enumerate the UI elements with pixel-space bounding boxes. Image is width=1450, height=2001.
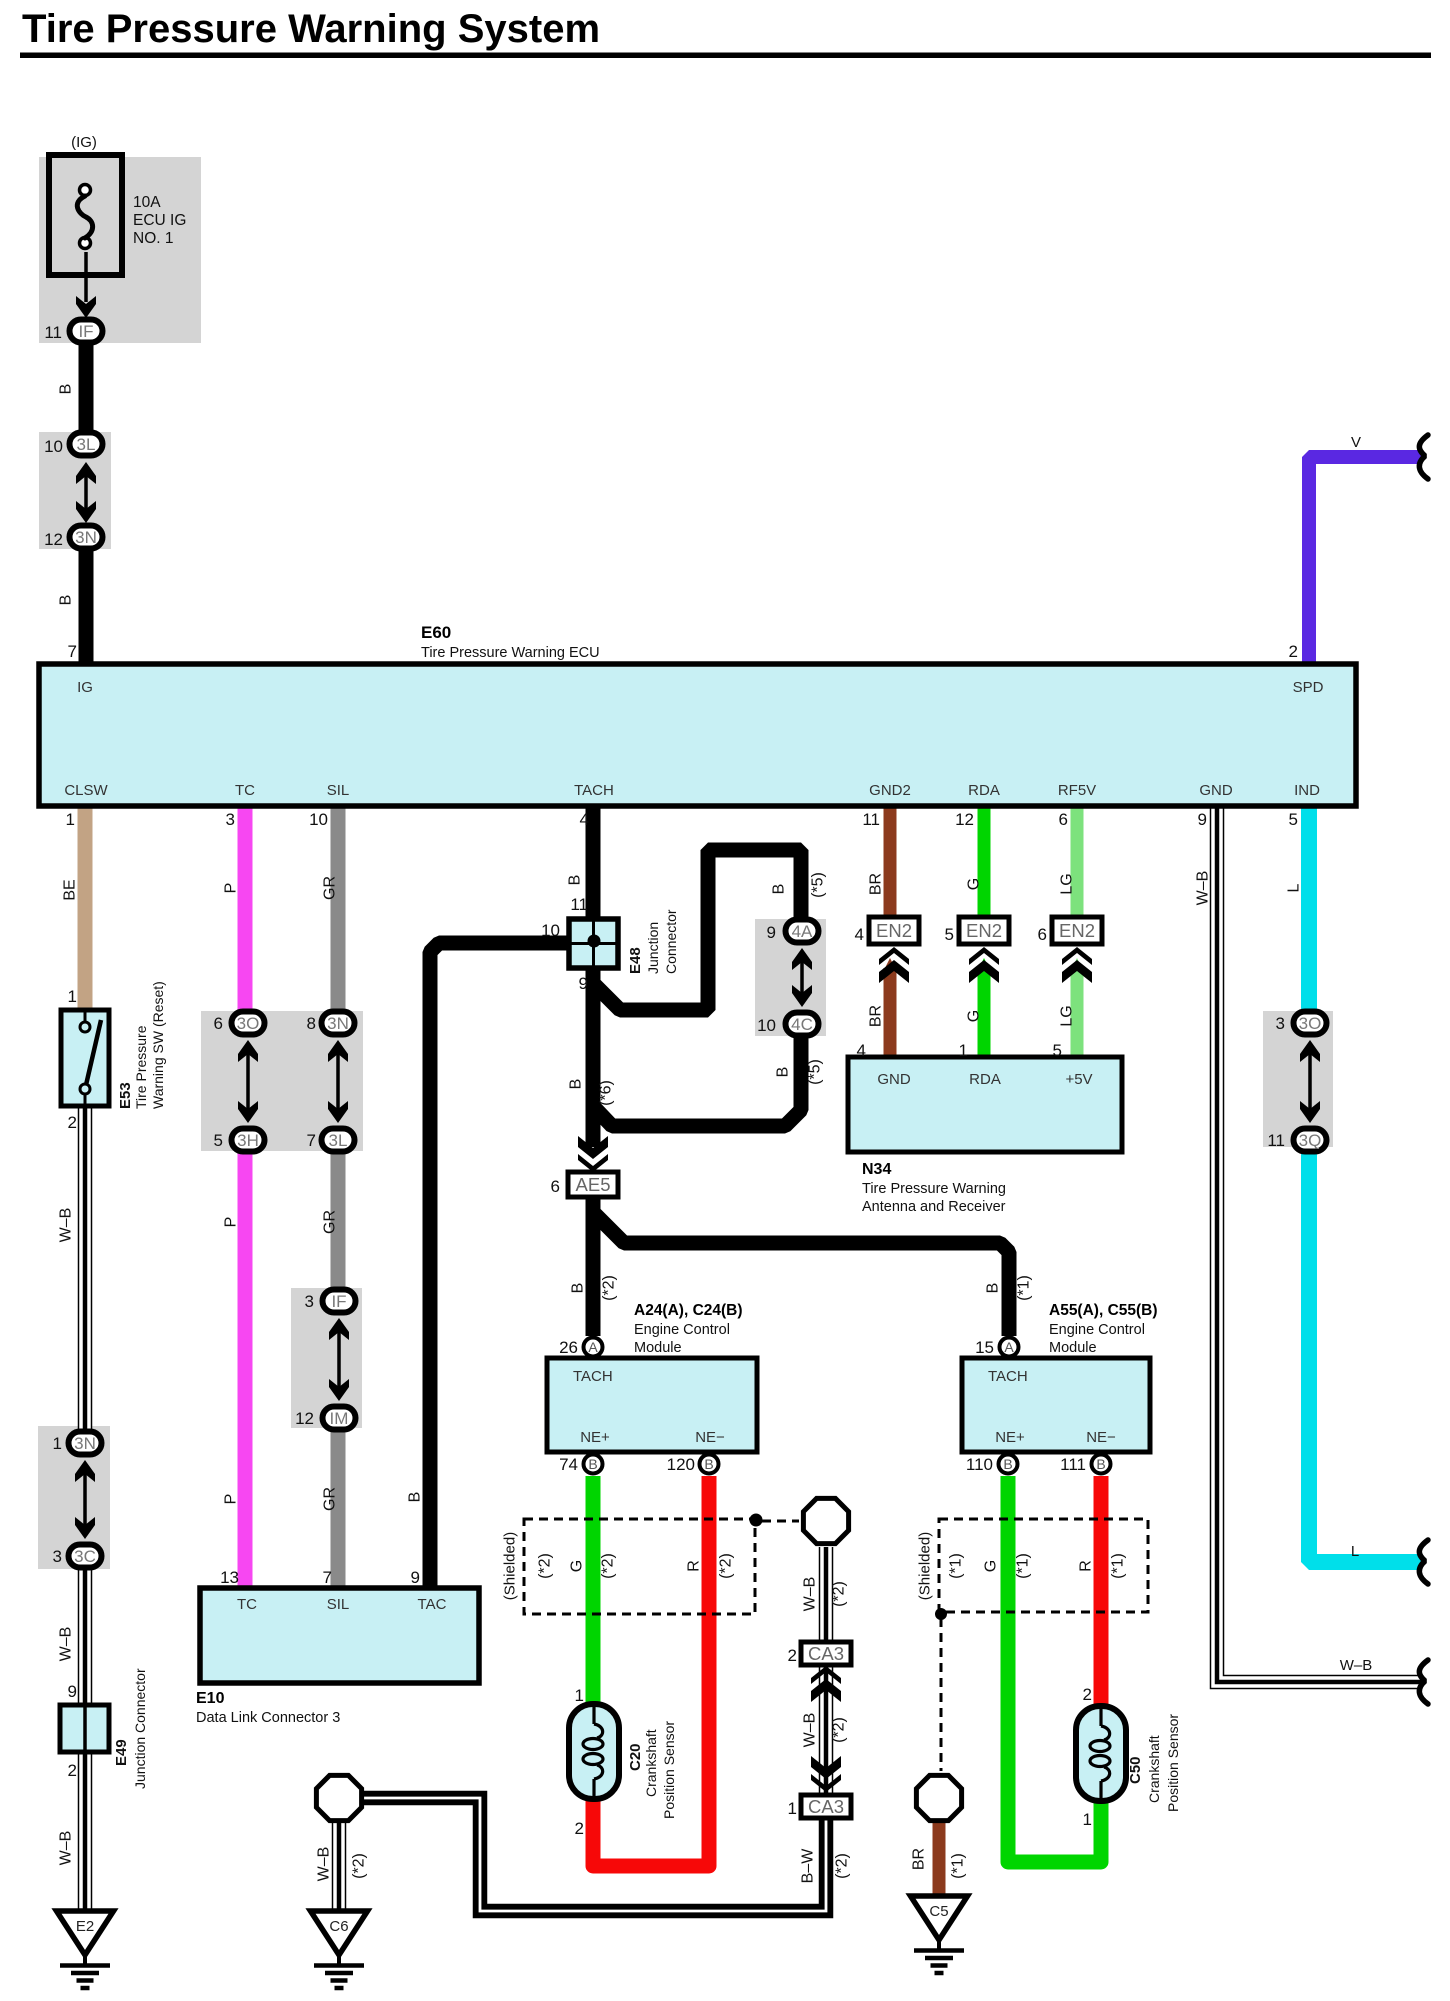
svg-text:(*5): (*5) [807, 1059, 824, 1085]
svg-text:RDA: RDA [969, 1071, 1001, 1088]
svg-text:+5V: +5V [1065, 1071, 1092, 1088]
svg-text:9: 9 [767, 923, 776, 942]
svg-text:P: P [223, 1217, 240, 1228]
svg-text:BR: BR [868, 873, 885, 895]
svg-text:(Shielded): (Shielded) [502, 1532, 519, 1600]
svg-text:Module: Module [634, 1340, 682, 1356]
svg-text:E10: E10 [196, 1690, 225, 1707]
svg-text:G: G [966, 878, 983, 890]
svg-text:Engine Control: Engine Control [1049, 1322, 1145, 1338]
svg-text:3O: 3O [1299, 1014, 1322, 1033]
svg-text:4: 4 [857, 1041, 866, 1060]
svg-text:1: 1 [68, 987, 77, 1006]
svg-text:Connector: Connector [663, 909, 679, 974]
svg-text:EN2: EN2 [1059, 920, 1095, 941]
svg-text:(*2): (*2) [600, 1553, 617, 1579]
svg-text:(*1): (*1) [950, 1853, 967, 1879]
svg-text:(*2): (*2) [834, 1853, 851, 1879]
svg-text:LG: LG [1059, 873, 1076, 894]
svg-text:5: 5 [945, 925, 954, 944]
svg-text:1: 1 [1083, 1810, 1092, 1829]
svg-text:3Q: 3Q [1299, 1131, 1322, 1150]
svg-text:P: P [223, 1494, 240, 1505]
svg-text:2: 2 [68, 1113, 77, 1132]
svg-text:Tire Pressure Warning: Tire Pressure Warning [862, 1181, 1006, 1197]
svg-text:(*5): (*5) [810, 872, 827, 898]
svg-text:(IG): (IG) [71, 134, 97, 151]
svg-text:3N: 3N [75, 528, 97, 547]
svg-text:9: 9 [68, 1682, 77, 1701]
svg-text:10A: 10A [133, 194, 161, 211]
svg-text:W–B: W–B [1195, 871, 1212, 906]
svg-text:3: 3 [226, 810, 235, 829]
svg-text:9: 9 [411, 1568, 420, 1587]
svg-text:GR: GR [322, 1487, 339, 1511]
svg-text:LG: LG [1059, 1005, 1076, 1026]
svg-text:3L: 3L [77, 435, 96, 454]
svg-text:E48: E48 [627, 947, 644, 974]
svg-text:7: 7 [307, 1131, 316, 1150]
svg-text:BE: BE [62, 879, 79, 900]
svg-text:V: V [1351, 434, 1361, 451]
svg-text:Position Sensor: Position Sensor [661, 1721, 677, 1819]
svg-text:11: 11 [570, 895, 588, 914]
svg-text:Antenna and Receiver: Antenna and Receiver [862, 1199, 1006, 1215]
svg-text:IF: IF [78, 322, 93, 341]
svg-text:2: 2 [1083, 1685, 1092, 1704]
svg-text:A: A [1004, 1339, 1014, 1355]
svg-text:GND: GND [1199, 782, 1233, 799]
svg-text:(*1): (*1) [948, 1553, 965, 1579]
svg-text:IF: IF [331, 1292, 346, 1311]
svg-text:R: R [686, 1560, 703, 1572]
svg-text:NO. 1: NO. 1 [133, 230, 173, 247]
svg-text:2: 2 [575, 1819, 584, 1838]
svg-text:BR: BR [868, 1005, 885, 1027]
svg-text:E53: E53 [117, 1082, 134, 1109]
svg-text:Data Link Connector 3: Data Link Connector 3 [196, 1710, 340, 1726]
svg-text:(*2): (*2) [718, 1553, 735, 1579]
svg-text:7: 7 [68, 642, 77, 661]
svg-text:TACH: TACH [573, 1368, 613, 1385]
svg-text:TACH: TACH [574, 782, 614, 799]
svg-text:TACH: TACH [988, 1368, 1028, 1385]
svg-text:6: 6 [214, 1014, 223, 1033]
svg-text:(*2): (*2) [351, 1853, 368, 1879]
svg-text:5: 5 [214, 1131, 223, 1150]
svg-text:4C: 4C [791, 1015, 813, 1034]
svg-text:6: 6 [1038, 925, 1047, 944]
svg-text:W–B: W–B [58, 1831, 75, 1866]
svg-text:10: 10 [541, 921, 560, 940]
svg-text:2: 2 [788, 1646, 797, 1665]
svg-text:4: 4 [580, 810, 589, 829]
svg-text:1: 1 [53, 1434, 62, 1453]
svg-text:GND: GND [877, 1071, 911, 1088]
svg-text:1: 1 [66, 810, 75, 829]
svg-text:3: 3 [53, 1547, 62, 1566]
svg-text:(*2): (*2) [537, 1553, 554, 1579]
svg-text:E49: E49 [113, 1739, 130, 1766]
svg-text:A24(A), C24(B): A24(A), C24(B) [634, 1302, 743, 1319]
svg-text:5: 5 [1289, 810, 1298, 829]
svg-text:2: 2 [1289, 642, 1298, 661]
svg-text:Crankshaft: Crankshaft [643, 1729, 659, 1797]
svg-text:RDA: RDA [968, 782, 1000, 799]
svg-text:E60: E60 [421, 623, 451, 642]
svg-text:(*2): (*2) [831, 1581, 848, 1607]
svg-text:B: B [58, 384, 75, 395]
svg-text:(*6): (*6) [598, 1080, 615, 1106]
svg-text:CLSW: CLSW [64, 782, 108, 799]
svg-text:C20: C20 [627, 1743, 644, 1771]
svg-text:12: 12 [295, 1409, 314, 1428]
svg-text:6: 6 [1059, 810, 1068, 829]
svg-text:C6: C6 [329, 1918, 348, 1935]
svg-text:B: B [775, 1067, 792, 1078]
svg-text:W–B: W–B [316, 1847, 333, 1882]
svg-text:(*2): (*2) [831, 1717, 848, 1743]
svg-text:3O: 3O [237, 1014, 260, 1033]
svg-text:26: 26 [559, 1338, 578, 1357]
svg-text:3L: 3L [329, 1131, 348, 1150]
svg-text:EN2: EN2 [876, 920, 912, 941]
svg-text:3N: 3N [74, 1434, 96, 1453]
svg-text:(*1): (*1) [1110, 1553, 1127, 1579]
svg-text:W–B: W–B [58, 1208, 75, 1243]
svg-text:NE+: NE+ [995, 1429, 1025, 1446]
svg-text:TC: TC [237, 1596, 257, 1613]
svg-text:B: B [58, 595, 75, 606]
svg-text:(*1): (*1) [1016, 1275, 1033, 1301]
svg-text:Position Sensor: Position Sensor [1165, 1714, 1181, 1812]
svg-text:Tire Pressure: Tire Pressure [133, 1025, 149, 1109]
svg-text:CA3: CA3 [808, 1643, 844, 1664]
svg-text:12: 12 [955, 810, 974, 829]
svg-text:8: 8 [307, 1014, 316, 1033]
svg-text:4A: 4A [792, 922, 813, 941]
svg-text:110: 110 [966, 1455, 993, 1474]
svg-text:Tire Pressure Warning System: Tire Pressure Warning System [22, 7, 600, 51]
svg-text:SIL: SIL [327, 1596, 350, 1613]
svg-text:Warning SW (Reset): Warning SW (Reset) [150, 981, 166, 1109]
svg-text:B: B [568, 1079, 585, 1090]
svg-text:NE+: NE+ [580, 1429, 610, 1446]
svg-text:G: G [569, 1560, 586, 1572]
svg-text:B: B [570, 1283, 587, 1294]
svg-text:SPD: SPD [1293, 679, 1324, 696]
svg-text:B: B [771, 884, 788, 895]
svg-text:C5: C5 [929, 1903, 948, 1920]
svg-text:GND2: GND2 [869, 782, 911, 799]
svg-text:1: 1 [959, 1041, 968, 1060]
svg-text:NE−: NE− [695, 1429, 725, 1446]
svg-text:L: L [1286, 883, 1303, 892]
svg-text:Tire Pressure Warning ECU: Tire Pressure Warning ECU [421, 645, 600, 661]
svg-text:1: 1 [788, 1799, 797, 1818]
svg-text:7: 7 [323, 1568, 332, 1587]
svg-text:B: B [407, 1492, 424, 1503]
svg-text:10: 10 [309, 810, 328, 829]
svg-text:3: 3 [305, 1292, 314, 1311]
svg-text:L: L [1351, 1543, 1359, 1560]
svg-text:B: B [704, 1456, 713, 1472]
svg-text:W–B: W–B [802, 1713, 819, 1748]
svg-text:B: B [985, 1283, 1002, 1294]
svg-text:Junction Connector: Junction Connector [132, 1668, 148, 1789]
svg-text:2: 2 [68, 1761, 77, 1780]
svg-text:AE5: AE5 [576, 1174, 611, 1195]
svg-text:9: 9 [579, 974, 588, 993]
svg-text:11: 11 [862, 810, 880, 829]
svg-text:G: G [966, 1010, 983, 1022]
svg-text:IG: IG [77, 679, 93, 696]
svg-text:B: B [567, 875, 584, 886]
svg-text:1: 1 [575, 1686, 584, 1705]
svg-text:GR: GR [322, 876, 339, 900]
svg-text:TAC: TAC [418, 1596, 447, 1613]
svg-text:11: 11 [44, 323, 62, 342]
svg-text:15: 15 [975, 1338, 994, 1357]
svg-text:IND: IND [1294, 782, 1320, 799]
svg-text:E2: E2 [76, 1918, 94, 1935]
svg-text:(Shielded): (Shielded) [917, 1532, 934, 1600]
svg-text:NE−: NE− [1086, 1429, 1116, 1446]
svg-text:74: 74 [559, 1455, 578, 1474]
svg-text:120: 120 [667, 1455, 695, 1474]
svg-text:W–B: W–B [58, 1627, 75, 1662]
svg-text:3: 3 [1276, 1014, 1285, 1033]
svg-text:12: 12 [44, 530, 63, 549]
svg-text:Engine Control: Engine Control [634, 1322, 730, 1338]
svg-text:111: 111 [1060, 1455, 1086, 1474]
svg-text:3N: 3N [327, 1014, 349, 1033]
svg-text:R: R [1078, 1560, 1095, 1572]
svg-text:G: G [983, 1560, 1000, 1572]
svg-text:BR: BR [911, 1848, 928, 1870]
svg-text:Junction: Junction [645, 922, 661, 974]
svg-text:5: 5 [1053, 1041, 1062, 1060]
svg-text:P: P [223, 883, 240, 894]
svg-text:W–B: W–B [1340, 1657, 1373, 1674]
svg-text:GR: GR [322, 1210, 339, 1234]
svg-text:10: 10 [44, 437, 63, 456]
svg-text:A: A [588, 1339, 598, 1355]
svg-text:11: 11 [1267, 1131, 1285, 1150]
svg-text:N34: N34 [862, 1161, 891, 1178]
svg-text:W–B: W–B [802, 1577, 819, 1612]
svg-text:3C: 3C [74, 1547, 96, 1566]
svg-text:CA3: CA3 [808, 1796, 844, 1817]
svg-text:RF5V: RF5V [1058, 782, 1096, 799]
svg-text:3H: 3H [237, 1131, 259, 1150]
svg-text:SIL: SIL [327, 782, 350, 799]
svg-text:Module: Module [1049, 1340, 1097, 1356]
svg-text:4: 4 [855, 925, 864, 944]
svg-text:10: 10 [757, 1016, 776, 1035]
svg-text:(*2): (*2) [601, 1275, 618, 1301]
svg-text:9: 9 [1198, 810, 1207, 829]
svg-text:TC: TC [235, 782, 255, 799]
svg-text:EN2: EN2 [966, 920, 1002, 941]
svg-text:IM: IM [330, 1409, 349, 1428]
svg-text:6: 6 [551, 1177, 560, 1196]
svg-text:13: 13 [220, 1568, 239, 1587]
svg-text:ECU IG: ECU IG [133, 212, 186, 229]
svg-text:C50: C50 [1127, 1756, 1144, 1784]
svg-text:Crankshaft: Crankshaft [1146, 1735, 1162, 1803]
svg-text:(*1): (*1) [1015, 1553, 1032, 1579]
svg-text:B: B [1003, 1456, 1012, 1472]
svg-text:B–W: B–W [800, 1848, 817, 1884]
svg-text:A55(A), C55(B): A55(A), C55(B) [1049, 1302, 1158, 1319]
svg-text:B: B [1096, 1456, 1105, 1472]
svg-text:B: B [588, 1456, 597, 1472]
